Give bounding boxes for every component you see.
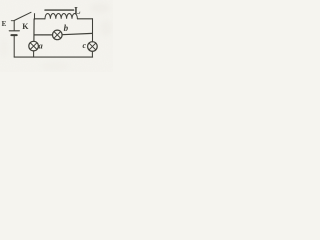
svg-text:L: L — [74, 6, 80, 16]
svg-text:c: c — [83, 41, 87, 50]
svg-text:a: a — [39, 40, 44, 50]
svg-text:K: K — [22, 22, 29, 31]
svg-text:b: b — [64, 23, 69, 33]
svg-text:E: E — [2, 20, 7, 28]
